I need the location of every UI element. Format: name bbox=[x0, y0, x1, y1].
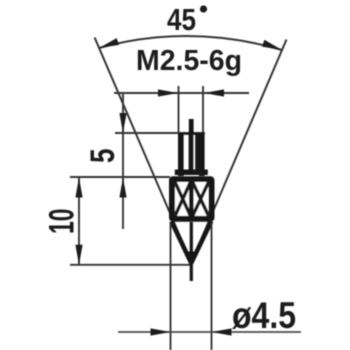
svg-text:45: 45 bbox=[167, 2, 196, 37]
svg-text:5: 5 bbox=[84, 149, 122, 164]
svg-text:ø4.5: ø4.5 bbox=[232, 295, 296, 336]
svg-text:M2.5-6g: M2.5-6g bbox=[136, 45, 242, 77]
svg-text:10: 10 bbox=[43, 209, 82, 235]
